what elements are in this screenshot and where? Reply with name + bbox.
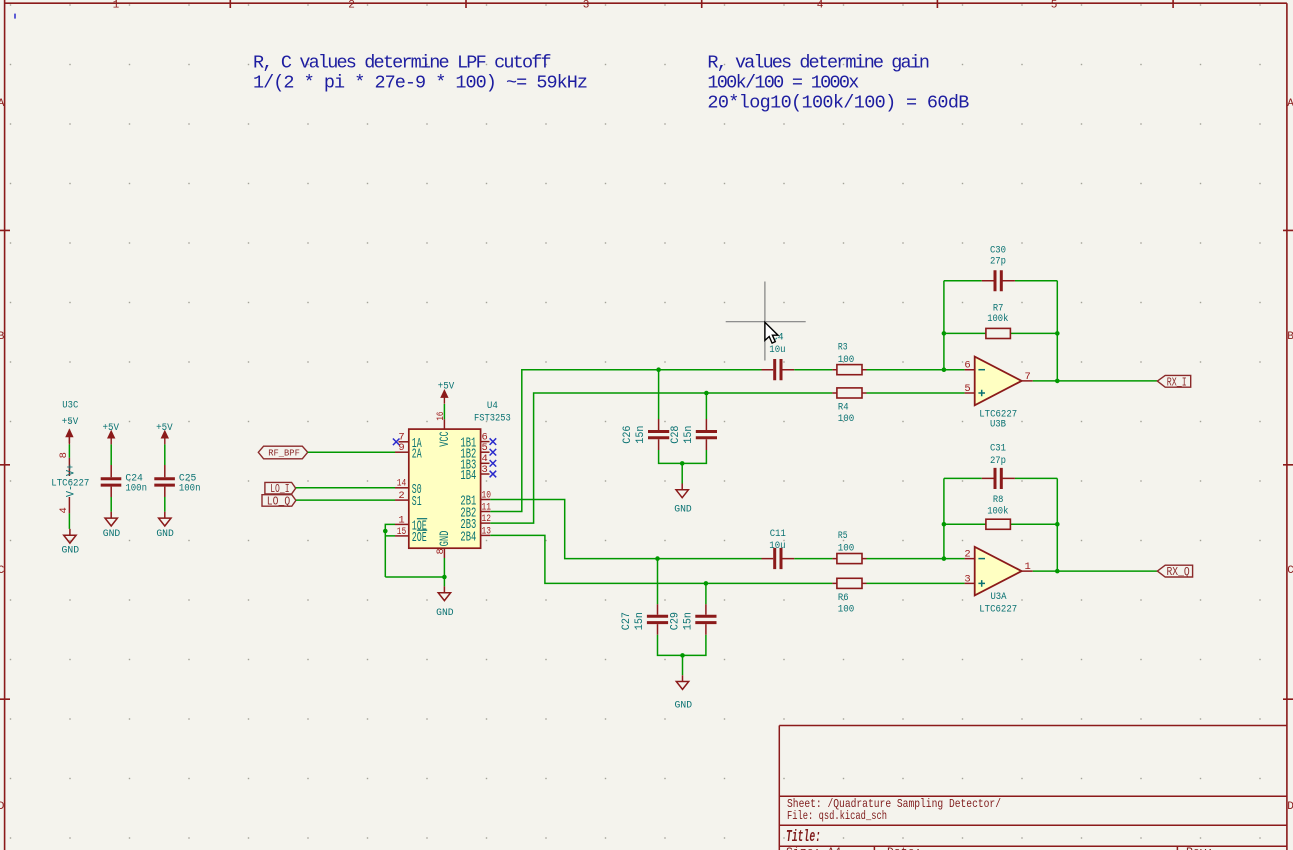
wire C29 tap xyxy=(705,583,707,604)
svg-text:15n: 15n xyxy=(683,612,695,630)
wire U3B output xyxy=(1033,380,1158,382)
wire U3A feedback right leg xyxy=(1056,478,1058,571)
svg-text:D: D xyxy=(0,801,5,813)
ground (C24) xyxy=(103,512,121,540)
no-connect X pin 6 xyxy=(490,438,497,445)
capacitor C24 xyxy=(101,465,147,497)
ground (C25) xyxy=(156,512,174,540)
svg-text:2: 2 xyxy=(398,490,404,502)
op-amp U3B xyxy=(964,357,1032,431)
ground (U3C) xyxy=(62,529,80,557)
svg-text:GND: GND xyxy=(675,700,693,711)
global label LO_I xyxy=(265,482,296,496)
wire +5V to C25 xyxy=(164,444,166,465)
wire R4 to U3B +in xyxy=(867,392,965,394)
wire RF_BPF to U4 pin 9 xyxy=(308,451,395,453)
resistor R5 xyxy=(832,531,866,564)
title block xyxy=(779,726,1287,850)
svg-text:GND: GND xyxy=(674,504,692,515)
pin 2 S1 of U4 xyxy=(395,490,422,510)
svg-text:+5V: +5V xyxy=(438,381,455,392)
svg-text:27p: 27p xyxy=(990,257,1006,268)
svg-text:15n: 15n xyxy=(635,426,647,444)
svg-text:100k/100 = 1000x: 100k/100 = 1000x xyxy=(707,72,859,93)
wire U3B feedback right leg xyxy=(1056,281,1058,381)
wire C28 tap xyxy=(705,393,707,419)
svg-text:Rev:: Rev: xyxy=(1186,846,1214,850)
svg-text:100n: 100n xyxy=(125,484,147,495)
svg-text:RX_Q: RX_Q xyxy=(1167,565,1190,579)
svg-text:RF_BPF: RF_BPF xyxy=(268,448,300,458)
svg-text:2: 2 xyxy=(348,0,355,12)
wire U3A output xyxy=(1033,570,1158,572)
svg-text:C29: C29 xyxy=(670,612,682,630)
capacitor C11 xyxy=(762,529,795,569)
wire C26 bottom xyxy=(659,450,707,463)
cursor crosshair xyxy=(726,282,806,361)
wire pin 11 to I upper row xyxy=(490,370,761,512)
svg-text:1: 1 xyxy=(1024,561,1030,573)
svg-text:R4: R4 xyxy=(838,402,849,413)
pin 14 S0 of U4 xyxy=(395,478,422,498)
svg-text:V+: V+ xyxy=(66,464,78,476)
no-connect X pin 3 xyxy=(490,471,497,478)
svg-text:27p: 27p xyxy=(990,456,1006,467)
svg-text:4: 4 xyxy=(58,507,70,513)
wire LO_Q to U4 pin 2 xyxy=(296,499,395,501)
junction pins 1-15 tie xyxy=(383,529,388,534)
svg-text:R, C values determine LPF cuto: R, C values determine LPF cutoff xyxy=(253,52,552,73)
svg-text:8: 8 xyxy=(435,548,447,554)
svg-text:U3A: U3A xyxy=(990,592,1006,603)
wire U3A feedback left leg xyxy=(943,478,945,558)
svg-text:1/(2 * pi * 27e-9 * 100) ~= 59: 1/(2 * pi * 27e-9 * 100) ~= 59kHz xyxy=(253,72,588,93)
junction C29 lower wire tap xyxy=(704,581,709,586)
wire pin 13 to Q lower row xyxy=(490,535,832,583)
pin 8 U3C xyxy=(58,452,70,476)
svg-text:D: D xyxy=(1287,801,1293,813)
svg-text:2: 2 xyxy=(964,549,970,561)
wire +5V to U4 pin 16 xyxy=(443,404,445,419)
svg-text:FST3253: FST3253 xyxy=(474,413,511,425)
wire R5 to U3A -in xyxy=(867,558,965,560)
pin 13 2B4 of U4 xyxy=(460,525,491,545)
pin 8 GND of U4 xyxy=(435,531,452,558)
wire +5V to C24 xyxy=(110,444,112,465)
svg-text:GND: GND xyxy=(156,529,174,540)
svg-text:A: A xyxy=(1287,98,1293,110)
wire C27 bottom xyxy=(658,635,706,656)
power symbol +5V (U4 VCC) xyxy=(438,381,455,403)
svg-text:R5: R5 xyxy=(838,531,848,542)
pin 4 U3C xyxy=(58,497,70,513)
wire pins 1,15 tie loop xyxy=(385,524,395,577)
svg-text:20*log10(100k/100) = 60dB: 20*log10(100k/100) = 60dB xyxy=(707,92,969,113)
svg-text:1B4: 1B4 xyxy=(460,469,476,484)
svg-text:C: C xyxy=(1287,565,1293,577)
svg-text:15n: 15n xyxy=(683,425,695,443)
no-connect X pin 7 xyxy=(393,439,400,446)
title block size/date/rev row xyxy=(786,846,1214,850)
hierarchical label RX_I xyxy=(1157,375,1190,389)
svg-text:R8: R8 xyxy=(993,495,1004,506)
pin 5 1B2 of U4 xyxy=(460,442,489,462)
pin 11 2B2 of U4 xyxy=(460,501,491,521)
power symbol +5V (C25) xyxy=(156,423,173,444)
svg-text:15n: 15n xyxy=(634,612,646,630)
hierarchical label RF_BPF xyxy=(258,446,307,459)
svg-text:C31: C31 xyxy=(990,444,1006,455)
svg-text:1: 1 xyxy=(113,0,120,12)
svg-text:RX_I: RX_I xyxy=(1167,375,1187,389)
resistor R6 xyxy=(832,578,866,615)
svg-text:GND: GND xyxy=(438,531,452,547)
svg-text:1: 1 xyxy=(398,514,404,526)
border column numbers xyxy=(113,0,1058,12)
svg-text:13: 13 xyxy=(482,525,492,537)
op-amp U3C power unit xyxy=(62,400,78,411)
ground (U4) xyxy=(436,586,454,618)
junction Q upper at C27 xyxy=(655,556,660,561)
pin 4 1B3 of U4 xyxy=(460,453,489,473)
no-connect X pin 5 xyxy=(490,449,497,456)
svg-text:U3C: U3C xyxy=(62,400,78,411)
svg-text:C27: C27 xyxy=(621,612,633,630)
resistor R8 xyxy=(986,495,1011,529)
hierarchical label RX_Q xyxy=(1157,565,1192,579)
svg-text:5: 5 xyxy=(964,383,970,395)
svg-text:100k: 100k xyxy=(987,313,1008,325)
wire to gnd Q filter xyxy=(682,655,684,675)
svg-text:U4: U4 xyxy=(487,400,498,412)
svg-text:5: 5 xyxy=(1051,0,1058,12)
svg-text:100k: 100k xyxy=(987,506,1008,518)
capacitor C28 xyxy=(670,419,717,450)
pin 1 1OE of U4 xyxy=(395,514,427,534)
svg-text:12: 12 xyxy=(482,513,492,525)
ground (I filter) xyxy=(674,484,692,516)
junction R8 left xyxy=(942,522,947,527)
svg-text:Title:: Title: xyxy=(786,827,821,846)
pin 9 2A of U4 xyxy=(395,442,422,462)
svg-text:9: 9 xyxy=(398,442,404,454)
junction I upper at C26 xyxy=(656,367,661,372)
global label LO_Q xyxy=(262,495,296,509)
junction R7 left xyxy=(942,331,947,336)
wire R8 rail xyxy=(944,523,1057,525)
resistor R7 xyxy=(986,304,1011,339)
svg-text:GND: GND xyxy=(436,608,454,619)
svg-text:+5V: +5V xyxy=(62,417,79,428)
capacitor C26 xyxy=(622,419,669,450)
wire C25 to gnd xyxy=(164,497,166,512)
wire C31 rail xyxy=(944,477,1057,479)
svg-text:14: 14 xyxy=(397,478,407,490)
svg-text:10u: 10u xyxy=(769,345,785,356)
svg-text:U3B: U3B xyxy=(990,420,1006,431)
wire U3B feedback left leg xyxy=(943,281,945,370)
junction R7 right xyxy=(1055,331,1060,336)
svg-text:6: 6 xyxy=(964,360,970,372)
svg-text:S1: S1 xyxy=(412,495,422,510)
pin 6 1B1 of U4 xyxy=(460,432,489,452)
wire C24 to gnd xyxy=(110,497,112,512)
capacitor C4 xyxy=(762,333,795,381)
capacitor C31 xyxy=(982,444,1015,489)
svg-text:Date:: Date: xyxy=(887,846,922,850)
wire C26 tap xyxy=(658,370,660,419)
svg-text:8: 8 xyxy=(58,452,70,458)
svg-text:3: 3 xyxy=(964,573,970,585)
wire to gnd I filter xyxy=(681,463,683,483)
svg-text:2B4: 2B4 xyxy=(460,531,476,546)
svg-text:C28: C28 xyxy=(670,425,682,443)
wire C27 tap xyxy=(657,559,659,605)
grid origin marker xyxy=(14,14,16,19)
pin 12 2B3 of U4 xyxy=(460,513,491,533)
svg-text:GND: GND xyxy=(103,529,121,540)
IC U4 FST3253 body xyxy=(409,400,511,548)
no-connect X pin 4 xyxy=(490,460,497,467)
capacitor C30 xyxy=(982,245,1015,291)
wire R7 rail xyxy=(944,332,1057,334)
junction U3A output xyxy=(1055,569,1060,574)
svg-text:LO_I: LO_I xyxy=(270,483,289,496)
capacitor C29 xyxy=(670,604,717,635)
svg-text:VCC: VCC xyxy=(438,431,452,447)
svg-text:LTC6227: LTC6227 xyxy=(979,604,1017,615)
power symbol +5V (U3C) xyxy=(62,417,79,445)
svg-text:100: 100 xyxy=(838,414,855,425)
wire U4 gnd loop xyxy=(385,558,444,586)
wire pin 12 to I lower row xyxy=(490,393,832,523)
svg-text:C30: C30 xyxy=(990,245,1006,256)
pin 10 2B1 of U4 xyxy=(460,489,491,509)
junction U3B output xyxy=(1055,379,1060,384)
svg-text:V-: V- xyxy=(66,485,78,497)
svg-text:16: 16 xyxy=(435,412,447,421)
svg-text:C: C xyxy=(0,565,5,577)
svg-text:4: 4 xyxy=(817,0,824,12)
svg-text:C26: C26 xyxy=(622,426,634,444)
op-amp U3A xyxy=(964,547,1032,616)
svg-text:R, values determine gain: R, values determine gain xyxy=(707,52,930,73)
resistor R4 xyxy=(832,388,866,425)
junction C28 lower wire tap xyxy=(704,391,709,396)
svg-text:3: 3 xyxy=(583,0,590,12)
junction U3A -in feedback xyxy=(942,556,947,561)
svg-text:15: 15 xyxy=(397,526,407,538)
wire R3 to U3B -in xyxy=(867,369,965,371)
wire C11 to R5 xyxy=(794,558,832,560)
resistor R3 xyxy=(832,342,866,374)
svg-text:Size: A4: Size: A4 xyxy=(786,846,841,850)
ground (Q filter) xyxy=(675,675,693,711)
svg-text:B: B xyxy=(1287,331,1293,343)
capacitor C27 xyxy=(621,604,668,635)
wire U3C V+ xyxy=(68,444,70,457)
pin 7 1A of U4 xyxy=(398,432,422,452)
svg-text:R3: R3 xyxy=(838,342,848,353)
svg-text:100n: 100n xyxy=(179,484,201,495)
junction R8 right xyxy=(1055,522,1060,527)
pin 3 1B4 of U4 xyxy=(460,464,489,484)
svg-text:2OE: 2OE xyxy=(412,531,427,546)
capacitor C25 xyxy=(154,465,200,497)
svg-text:100: 100 xyxy=(838,605,855,616)
svg-text:11: 11 xyxy=(482,501,492,513)
wire U3C V- to gnd xyxy=(68,513,70,529)
pin 15 2OE of U4 xyxy=(395,526,427,546)
junction C26-C28 gnd xyxy=(680,461,685,466)
pin 16 VCC of U4 xyxy=(435,412,452,447)
junction U3B -in feedback xyxy=(942,367,947,372)
svg-text:GND: GND xyxy=(62,546,80,557)
wire C4 to R3 xyxy=(794,369,832,371)
svg-text:LO_Q: LO_Q xyxy=(267,495,290,508)
svg-text:File: qsd.kicad_sch: File: qsd.kicad_sch xyxy=(787,809,887,823)
svg-text:3: 3 xyxy=(482,464,488,476)
junction U4 gnd xyxy=(442,575,447,580)
svg-text:A: A xyxy=(0,98,5,110)
wire pin 10 to Q upper row xyxy=(490,500,761,559)
svg-text:7: 7 xyxy=(1024,371,1030,383)
junction C27-C29 gnd xyxy=(680,653,685,658)
wire R6 to U3A +in xyxy=(867,582,965,584)
note text LPF cutoff xyxy=(253,52,588,93)
svg-text:2A: 2A xyxy=(412,447,422,462)
svg-text:B: B xyxy=(0,331,5,343)
svg-text:C11: C11 xyxy=(770,529,786,540)
svg-text:10: 10 xyxy=(482,489,492,501)
mouse pointer xyxy=(765,322,778,343)
svg-text:R6: R6 xyxy=(838,593,849,604)
svg-text:10u: 10u xyxy=(769,541,785,552)
note text gain xyxy=(707,52,969,113)
wire LO_I to U4 pin 14 xyxy=(296,487,395,489)
wire C30 rail xyxy=(944,280,1057,282)
power symbol +5V (C24) xyxy=(103,423,120,444)
